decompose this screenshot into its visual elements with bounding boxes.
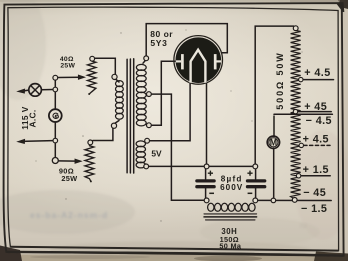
- node B+ left (C1 top): [204, 164, 209, 169]
- wire -4.5 tap line from meter corner: [274, 113, 332, 115]
- svg-text:+ 4.5: + 4.5: [303, 133, 329, 145]
- wire R1 top to primary top: [95, 58, 116, 74]
- resistor R1 tail dot: [88, 93, 90, 95]
- node primary bottom: [111, 123, 116, 128]
- border bottom rules thickened: [11, 247, 339, 251]
- wire right filament leg: [206, 82, 208, 166]
- svg-text:25W: 25W: [61, 174, 77, 183]
- wire meter branch top: [273, 116, 275, 136]
- node tap +4.5 dashed: [299, 143, 303, 147]
- transformer T1 primary winding: [116, 81, 124, 120]
- node tap +45: [293, 109, 297, 113]
- wire HV top to plate rectangle: [146, 24, 227, 57]
- ballast lamp I2 (circle with curl): [49, 109, 62, 122]
- wire R2 top to primary bottom: [93, 128, 113, 140]
- svg-text:25W: 25W: [60, 63, 75, 70]
- node HV secondary top: [144, 56, 149, 61]
- wire 5V bottom / B+ line: [149, 165, 253, 167]
- capacitor C1 bottom stub: [205, 188, 207, 198]
- transformer T1 5V winding: [136, 141, 145, 168]
- paper shading: right page-edge strip: [345, 0, 348, 261]
- node R1 top: [90, 56, 95, 61]
- svg-text:5V: 5V: [151, 148, 162, 158]
- paper specks: [35, 29, 302, 221]
- node HV secondary bottom: [147, 123, 152, 128]
- svg-text:ru: ru: [300, 223, 306, 230]
- wire primary top stub: [116, 79, 120, 82]
- border corner blob top-right: [336, 2, 344, 12]
- wire 5V top to filament: [149, 82, 190, 141]
- svg-text:M: M: [270, 138, 277, 148]
- node HV center tap: [147, 92, 152, 97]
- capacitor C2 polarity marks: [247, 171, 252, 176]
- wire tap +4.5 dashed line: [304, 144, 330, 146]
- svg-text:A.C.: A.C.: [28, 110, 38, 128]
- wire HV bottom to left plate: [151, 61, 176, 125]
- wire tap +1.5 line: [301, 175, 330, 177]
- svg-text:+ 45: + 45: [304, 101, 327, 113]
- svg-text:500Ω 50W: 500Ω 50W: [275, 51, 285, 109]
- wire primary bottom stub: [115, 121, 119, 124]
- tube plate right: [214, 54, 217, 69]
- top-right dark corner marks: [338, 0, 348, 9]
- resistor R2 90ohm 25W rheostat: [85, 146, 94, 182]
- choke L1 loops: [208, 203, 255, 211]
- node bleeder bottom: [292, 198, 297, 203]
- wire meter branch bottom: [273, 148, 275, 198]
- lamp I1 (circle-X pilot lamp): [29, 84, 42, 97]
- capacitor C1 8ufd top stub: [205, 169, 207, 180]
- AC plug arrow top: [18, 89, 25, 93]
- node meter bottom: [271, 198, 276, 203]
- svg-text:− 45: − 45: [303, 187, 326, 199]
- transformer T1 core: [127, 59, 134, 173]
- wire HV center tap down to B- line: [151, 94, 204, 200]
- wire line bus vertical: [54, 80, 56, 157]
- wire tap +45 line: [298, 111, 331, 113]
- capacitor C1 polarity marks: [208, 171, 213, 176]
- wire tap +4.5 line: [303, 79, 333, 81]
- resistor R1 40ohm 25W rheostat: [88, 61, 96, 94]
- node bus AC bottom junction: [53, 138, 58, 143]
- svg-text:es-ba-A2-nsm-d: es-ba-A2-nsm-d: [30, 210, 108, 220]
- wire lamp to bus: [42, 89, 53, 91]
- wire bus bottom to 90ohm tap: [58, 160, 76, 162]
- node bleeder top: [293, 26, 298, 31]
- tube filament: [191, 50, 206, 83]
- node primary top: [112, 74, 117, 79]
- svg-text:50 Ma: 50 Ma: [219, 242, 241, 251]
- AC plug arrow bottom: [18, 139, 25, 143]
- svg-text:5Y3: 5Y3: [150, 38, 167, 48]
- capacitor C2 bottom stub: [255, 188, 257, 198]
- node tap +4.5: [299, 77, 303, 81]
- bottom page shadow band: [0, 255, 348, 261]
- transformer T1 HV secondary winding: [136, 64, 146, 126]
- rectifier tube V1 body: [176, 37, 222, 83]
- capacitor C2 8ufd top stub: [255, 169, 257, 180]
- node R2 top: [88, 140, 93, 145]
- svg-text:− 1.5: − 1.5: [301, 203, 327, 215]
- wire B- line right section: [257, 199, 331, 201]
- node bus lamp junction: [53, 87, 58, 92]
- wire AC input bottom lead: [22, 140, 53, 143]
- tap arrow into R2: [75, 159, 81, 163]
- resistor R2 tail dot: [90, 180, 92, 182]
- capacitor C2 plates: [248, 179, 265, 182]
- tap arrow into R1: [78, 75, 84, 79]
- node B+ right (C2 top): [253, 164, 258, 169]
- svg-text:+ 1.5: + 1.5: [303, 164, 329, 176]
- node bus top: [53, 75, 58, 80]
- meter M1: [267, 136, 279, 148]
- rectifier tube V1 envelope ring: [174, 36, 223, 85]
- resistor R3 500ohm 50W bleeder: [291, 30, 301, 199]
- node 5V bottom: [144, 164, 149, 169]
- node choke right: [253, 198, 258, 203]
- wire bus to 40ohm tap: [58, 76, 80, 78]
- svg-text:600V: 600V: [220, 183, 243, 192]
- choke L1 core lines: [204, 214, 257, 220]
- node choke left: [204, 198, 209, 203]
- tube plate left: [181, 54, 184, 69]
- node bus bottom: [52, 158, 58, 164]
- node tap +1.5: [296, 174, 300, 178]
- capacitor C1 plates: [197, 179, 214, 182]
- wire B+ up to bleeder top: [255, 26, 295, 164]
- wire AC input top lead: [22, 90, 29, 91]
- wire HV top stub: [143, 61, 145, 64]
- svg-text:+ 4.5: + 4.5: [304, 67, 330, 79]
- svg-text:− 4.5: − 4.5: [306, 115, 332, 127]
- node 5V top: [145, 138, 150, 143]
